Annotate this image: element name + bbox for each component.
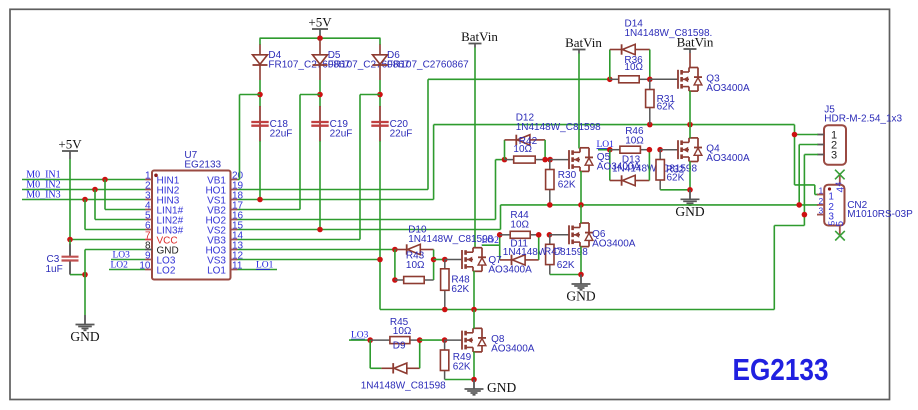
wire J5 pin2 drop (799, 145, 818, 205)
wire Q7 gate (445, 259, 462, 261)
resistor R32 (656, 150, 664, 190)
label R44 (510, 210, 529, 231)
capacitor C3 (62, 240, 79, 275)
net label LO2 (pin10) (111, 261, 129, 271)
label D13 (612, 155, 697, 175)
junction VS3 / Q7 source / Q8 drain (471, 307, 477, 313)
ground (Q8) (465, 380, 517, 396)
diode D12 (505, 135, 546, 145)
ic U7 pin1 marker (154, 174, 158, 178)
svg-text:4: 4 (834, 182, 844, 187)
svg-text:AO3400A: AO3400A (592, 238, 636, 249)
ic U7 pin 20 VB1 (207, 170, 243, 186)
junction LO3 / R45 / D9 (367, 337, 373, 343)
wire R49 to GND (445, 379, 474, 381)
wire +5V to VCC (70, 159, 145, 240)
label CN2 (847, 200, 913, 220)
label D4 (268, 50, 350, 71)
wire HO1 row (428, 78, 610, 80)
transistor Q4 AO3400A (678, 138, 702, 162)
wire LIN2# branch (95, 190, 145, 220)
wire D14 left riser (609, 50, 611, 80)
capacitor C18 (251, 106, 268, 142)
svg-text:LO1: LO1 (207, 265, 226, 276)
power flag BatVin 1 (461, 29, 498, 48)
svg-text:22uF: 22uF (390, 129, 413, 140)
resistor R46 (610, 146, 650, 153)
diode D6 (373, 45, 388, 81)
transistor Q7 AO3400A (462, 248, 486, 272)
wire Q8 drain to VS3 (473, 310, 475, 329)
wire HO1 (pin19 riser) (238, 79, 429, 189)
label R45 (390, 317, 412, 337)
svg-text:2: 2 (819, 196, 824, 206)
svg-text:62K: 62K (557, 260, 575, 271)
wire Q6 source to GND (580, 246, 582, 274)
junction gate Q7 / R48 (442, 257, 448, 263)
svg-text:LO2: LO2 (157, 265, 176, 276)
wire J5 pin3 drop (804, 155, 818, 215)
junction J5 pin1 / CN2 pin1 (792, 132, 798, 138)
junction VS1 / Q3 source / Q4 drain (687, 122, 693, 128)
wire C19 bottom to VS2 (319, 141, 321, 230)
svg-text:R47: R47 (544, 247, 563, 258)
junction M0_IN3 / LIN3# (82, 197, 88, 203)
wire VS1 rail (434, 124, 795, 126)
wire VS3 rail (380, 215, 804, 310)
ic U7 pin 9 LO3 (145, 250, 176, 266)
svg-text:4: 4 (836, 187, 847, 193)
junction J5 pin3 / VS3 (802, 212, 808, 218)
junction R45 / D9 (417, 337, 423, 343)
wire LO2 stub pin10 (109, 269, 145, 271)
wire Q8 gate (445, 339, 462, 341)
ground (Q6) (566, 275, 595, 304)
connector CN2 pin 2 (817, 196, 834, 213)
label D10 (408, 225, 493, 246)
wire LIN3# branch (85, 200, 145, 230)
wire D11 right riser (538, 235, 540, 260)
wire Q3 source to VS1 (689, 91, 691, 125)
svg-text:AO3400A: AO3400A (706, 83, 750, 94)
ic U7 pin 3 HIN3 (145, 190, 180, 206)
svg-text:+5V: +5V (58, 137, 82, 152)
label C3 (46, 254, 63, 275)
wire C18 bottom to VS1 (259, 141, 261, 200)
wire M0_IN2 to pin2 (22, 189, 145, 191)
svg-text:62K: 62K (657, 102, 675, 113)
junction VS2 / C19 (317, 227, 323, 233)
label Q7 (488, 255, 532, 276)
power flag +5V (diode rail) (308, 15, 332, 39)
ic U7 pin 7 VCC (145, 230, 178, 246)
svg-text:62K: 62K (451, 284, 469, 295)
wire LO1 row (598, 149, 610, 151)
junction Q4 source / GND (687, 187, 693, 193)
resistor R42 (505, 156, 546, 163)
ic U7 pin 17 VB2 (207, 200, 243, 216)
junction +5V rail at D5 (317, 35, 323, 41)
svg-text:3: 3 (819, 206, 824, 216)
junction R44 / D11 (536, 232, 542, 238)
ic U7 pin 10 LO2 (139, 260, 175, 276)
ic U7 pin 6 LIN3# (145, 220, 184, 236)
wire Q6 drain to VS2 (580, 205, 582, 223)
wire HO2 (pin16 riser) (238, 160, 496, 220)
connector J5 pin 2 (817, 139, 837, 151)
wire R47 to GND (550, 274, 581, 276)
svg-text:10Ω: 10Ω (510, 220, 529, 231)
wire VS1 (pin18) (238, 125, 434, 200)
wire LO2 stub (482, 235, 500, 260)
svg-text:10Ω: 10Ω (624, 62, 643, 73)
svg-text:EG2133: EG2133 (733, 352, 829, 387)
ic U7 pin 12 VS3 (207, 250, 243, 266)
junction LO1 / R46 / D13 (607, 147, 613, 153)
wire Q3 gate (650, 78, 678, 80)
label D12 (516, 113, 601, 134)
label Q8 (491, 334, 535, 355)
wire Q6 gate (549, 234, 569, 236)
diode D11 (500, 255, 539, 265)
wire Q5 gate (550, 159, 569, 161)
junction gate Q4 / R32 (657, 147, 663, 153)
wire LO1 stub pin11 (238, 269, 278, 271)
svg-text:GND: GND (675, 204, 704, 219)
resistor R36 (610, 76, 650, 83)
capacitor C20 (371, 106, 388, 142)
wire Q8 source to GND (473, 352, 475, 380)
wire LO3 stub pin9 (111, 259, 145, 261)
ic U7 pin 15 VS2 (207, 220, 243, 236)
svg-text:10Ω: 10Ω (513, 144, 532, 155)
svg-text:AO3400A: AO3400A (706, 153, 750, 164)
connector J5 body (824, 125, 846, 165)
connector CN2 pin 3 (817, 206, 834, 223)
svg-text:1N4148W_C81598: 1N4148W_C81598 (516, 122, 601, 133)
junction VB3 tap (377, 92, 383, 98)
svg-text:10Ω: 10Ω (406, 260, 425, 271)
svg-text:GND: GND (566, 289, 595, 304)
svg-text:1: 1 (828, 192, 834, 203)
net label LO3 (Q8 gate) (351, 330, 369, 340)
wire VB1 (pin20 to C18 top) (238, 95, 261, 180)
wire D5 to C19 (319, 80, 321, 107)
ic U7 pin 19 HO1 (205, 180, 243, 196)
ic U7 pin 5 LIN2# (145, 210, 184, 226)
wire Q4 source to GND (689, 161, 691, 190)
wire +5V rail to diodes (260, 38, 381, 45)
wire BatVin1 to Q7 drain (474, 48, 476, 249)
svg-text:1N4148W_C81598: 1N4148W_C81598 (408, 234, 493, 245)
wire D12 left riser (504, 140, 506, 160)
wire D13 right riser (648, 150, 650, 181)
diode D14 (610, 44, 650, 54)
svg-text:HDR-M-2.54_1x3: HDR-M-2.54_1x3 (824, 114, 902, 125)
svg-text:EG2133: EG2133 (184, 160, 221, 171)
junction VS3 / C20 (377, 257, 383, 263)
wire D10/R43 right riser (433, 250, 435, 281)
svg-text:FR107_C2760867: FR107_C2760867 (387, 60, 469, 71)
wire Q8 gate row (420, 339, 445, 341)
junction gate Q6 / R47 (547, 232, 553, 238)
net label LO1 (Q4 gate) (597, 140, 615, 150)
capacitor C19 (311, 106, 328, 142)
junction HO3 / D10 / R43 (392, 247, 398, 253)
wire BatVin3 to Q3 drain (689, 53, 691, 68)
junction LO2 / R44 / D11 (497, 232, 503, 238)
net label M0_IN1 (26, 170, 60, 181)
wire LO3 row (349, 339, 370, 341)
label R46 (625, 126, 644, 147)
label Q3 (706, 73, 750, 94)
connector CN2 pin 4 (nc) (834, 173, 847, 193)
wire HO2 row (496, 159, 505, 161)
label R47 (544, 247, 575, 271)
diode D13 (610, 175, 650, 185)
wire R32 to GND (660, 189, 690, 191)
ic U7 pin 11 LO1 (207, 260, 243, 276)
ic U7 title (184, 150, 221, 171)
label R42 (513, 136, 537, 155)
svg-text:GND: GND (70, 329, 99, 344)
svg-text:GND: GND (487, 380, 516, 395)
label R49 (453, 352, 472, 373)
junction VB2 tap (317, 92, 323, 98)
diode D10 (395, 244, 434, 254)
resistor R48 (441, 260, 449, 310)
junction J5 pin2 / VS2 (796, 202, 802, 208)
label Q6 (592, 229, 636, 250)
junction M0_IN1 / LIN1# (102, 177, 108, 183)
wire HO3 (pin13) (238, 249, 395, 251)
ic U7 EG2133 body (152, 171, 231, 280)
wire VB3 (pin14 to C20 top) (238, 95, 381, 240)
wire D6 to C20 (379, 80, 381, 107)
diode D4 (253, 45, 268, 81)
junction VB1 tap (257, 92, 263, 98)
svg-text:22uF: 22uF (330, 129, 353, 140)
wire pin8 GND (85, 250, 145, 316)
junction HO2 / D12 / R42 (502, 157, 508, 163)
wire Q7 gate row (434, 259, 445, 261)
wire D9 right riser (419, 340, 421, 368)
ic U7 pin 16 HO2 (205, 210, 243, 226)
wire D14 right riser (649, 50, 651, 80)
wire C3 to GND net (70, 274, 85, 276)
resistor R47 (546, 235, 554, 275)
svg-text:5: 5 (835, 221, 846, 227)
svg-text:AO3400A: AO3400A (597, 162, 641, 173)
svg-text:AO3400A: AO3400A (488, 264, 532, 275)
wire VS2 (pin15) (238, 205, 501, 230)
svg-text:1N4148W_C81598.: 1N4148W_C81598. (625, 28, 713, 39)
junction gate Q7 (431, 257, 437, 263)
resistor R45 (370, 337, 420, 344)
junction HO1 / D14 / R36 (607, 77, 613, 83)
wire Q4 gate (660, 149, 678, 151)
net label M0_IN3 (26, 190, 60, 201)
net label LO1 (pin11) (256, 261, 274, 271)
svg-text:1uF: 1uF (46, 264, 63, 275)
label R48 (451, 274, 470, 295)
svg-text:AO3400A: AO3400A (491, 344, 535, 355)
power flag +5V (VCC) (58, 137, 82, 160)
wire VB2 (pin17 to C19 top) (238, 95, 321, 210)
label D6 (387, 50, 469, 71)
label D11 (503, 238, 588, 258)
svg-text:62K: 62K (558, 180, 576, 191)
junction Q8 source / GND (471, 377, 477, 383)
svg-text:D9: D9 (393, 340, 406, 351)
wire BatVin2 to Q5 drain (578, 54, 580, 149)
transistor Q3 AO3400A (678, 68, 702, 92)
connector CN2 pin 1 (817, 186, 834, 203)
wire Q4 drain to VS1 (689, 125, 691, 139)
net label LO2 (Q6 gate) (482, 236, 500, 246)
net label M0_IN2 (26, 180, 60, 191)
svg-text:M1010RS-03P: M1010RS-03P (847, 209, 913, 220)
svg-text:10Ω: 10Ω (393, 326, 412, 337)
junction VS2 / Q5 source / Q6 drain (578, 202, 584, 208)
transistor Q6 AO3400A (569, 223, 593, 247)
svg-text:+5V: +5V (308, 15, 332, 30)
power flag BatVin 2 (565, 35, 602, 54)
label C18 (270, 119, 293, 140)
label Q5 (597, 152, 641, 173)
diode D5 (313, 39, 328, 80)
svg-text:BatVin: BatVin (461, 29, 498, 44)
transistor Q8 AO3400A (462, 328, 486, 352)
connector CN2 pin 5 (nc) (827, 221, 847, 235)
label R30 (558, 170, 577, 191)
resistor R30 (546, 160, 554, 205)
svg-text:1: 1 (819, 186, 824, 196)
junction R42 / D12 (542, 157, 548, 163)
label R43 (406, 250, 425, 271)
wire VS2 rail (501, 204, 819, 206)
svg-text:1N4148W_C81598: 1N4148W_C81598 (361, 380, 446, 391)
svg-text:62K: 62K (667, 173, 685, 184)
junction VCC / C3 (67, 237, 73, 243)
wire LIN1# branch (105, 180, 145, 210)
resistor R43 (395, 277, 434, 284)
ic U7 pin 13 HO3 (205, 240, 243, 256)
wire CN2 pin1 route (795, 185, 819, 195)
connector J5 pin 3 (817, 149, 837, 161)
junction gate Q8 / R49 (442, 337, 448, 343)
junction Q6 source / GND (578, 272, 584, 278)
label D14 (625, 19, 713, 40)
no-connect X on CN2 pin 5 (835, 231, 845, 241)
junction R43 left (392, 277, 398, 283)
label J5 (824, 105, 902, 125)
ic U7 pin 18 VS1 (207, 190, 243, 206)
wire M0_IN3 to pin3 (22, 199, 145, 201)
no-connect X on CN2 pin 4 (835, 170, 845, 180)
junction R46 / D13 (647, 147, 653, 153)
junction VS1 / C18 (257, 197, 263, 203)
wire D12 right drop (544, 140, 546, 160)
svg-text:3: 3 (831, 149, 837, 161)
label D9 (361, 340, 446, 391)
wire R43 left drop (394, 250, 396, 281)
power flag BatVin 3 (677, 35, 714, 54)
junction VS1 / R31 (647, 122, 653, 128)
svg-text:BatVin: BatVin (565, 35, 602, 50)
junction M0_IN2 / LIN2# (92, 187, 98, 193)
ground (Q4) (675, 190, 704, 219)
ic U7 pin 8 GND (145, 240, 179, 256)
ic U7 pin 4 LIN1# (145, 200, 184, 216)
wire D13 left drop (609, 150, 611, 181)
wire M0_IN1 to pin1 (22, 179, 145, 181)
wire Q5 source to VS2 (580, 171, 582, 205)
wire C20 bottom to VS3 and rail (379, 141, 381, 310)
label C19 (330, 119, 353, 140)
wire D9 left drop (370, 340, 381, 368)
label R32 (666, 165, 685, 184)
svg-text:22uF: 22uF (270, 129, 293, 140)
ic U7 pin 1 HIN1 (145, 170, 180, 186)
label Q4 (706, 144, 750, 165)
connector CN2 pin1 marker (828, 187, 831, 190)
wire VS3 (pin12) (238, 259, 381, 261)
label C20 (390, 119, 413, 140)
resistor R31 (646, 79, 654, 124)
label R36 (624, 55, 643, 73)
label R31 (657, 94, 676, 113)
net label LO3 (pin9) (113, 251, 131, 261)
wire D4 to C18 (259, 80, 261, 107)
wire VS1 to J5 pin1 (795, 125, 819, 185)
diode D9 (381, 363, 419, 373)
label D5 (328, 50, 410, 71)
svg-text:10Ω: 10Ω (625, 136, 644, 147)
junction VS2 / R30 (547, 202, 553, 208)
resistor R44 (500, 231, 539, 238)
junction gate Q5 / R30 (547, 157, 553, 163)
resistor R49 (440, 340, 448, 379)
connector J5 pin 1 (817, 129, 837, 141)
transistor Q5 AO3400A (569, 148, 593, 172)
junction C3 / GND (82, 272, 88, 278)
ic U7 pin 14 VB3 (207, 230, 243, 246)
ground (C3) (70, 315, 99, 344)
junction VS3 / R48 (442, 307, 448, 313)
wire Q7 source to VS3 (473, 271, 475, 310)
connector CN2 body (824, 185, 844, 226)
svg-text:62K: 62K (453, 362, 471, 373)
ic U7 pin 2 HIN2 (145, 180, 180, 196)
junction R36 / D14 / R31 / Q3 gate (647, 77, 653, 83)
